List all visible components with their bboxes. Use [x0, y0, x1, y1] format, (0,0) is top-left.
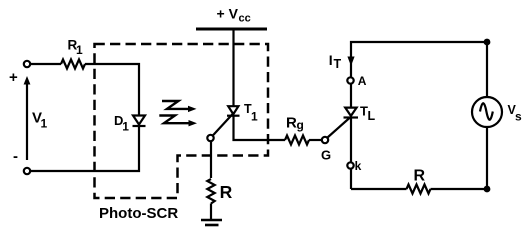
gate terminal circle G: [322, 137, 328, 143]
wire: [234, 116, 286, 140]
diode D1: [133, 116, 146, 127]
svg-text:L: L: [368, 109, 376, 123]
wire: [431, 188, 488, 190]
svg-text:R: R: [286, 115, 297, 132]
junction dot top-right: [484, 39, 491, 46]
svg-text:cc: cc: [239, 13, 251, 25]
Vcc supply rail: [196, 28, 267, 31]
label Vs: [508, 103, 523, 123]
label Rg: [286, 115, 304, 133]
label +Vcc: [217, 6, 251, 25]
resistor Rg: [285, 136, 309, 145]
light arrow 1: [162, 101, 197, 112]
wire: [210, 142, 212, 179]
junction dot bottom-right: [484, 186, 491, 193]
svg-text:1: 1: [76, 43, 83, 57]
wire: [31, 63, 61, 65]
svg-text:I: I: [329, 52, 333, 68]
wire: [486, 127, 488, 189]
terminal circle bottom-left: [24, 168, 30, 174]
gate terminal circle of T1: [207, 135, 213, 141]
dashed box Photo-SCR: [95, 44, 269, 198]
anode terminal circle A: [347, 77, 353, 83]
wire: [486, 42, 488, 97]
resistor R (load): [407, 185, 431, 194]
wire: [309, 139, 322, 141]
label IT: [329, 52, 342, 71]
svg-text:+: +: [9, 69, 18, 86]
label R1: [68, 37, 84, 57]
gate wire of TL: [328, 118, 351, 138]
svg-text:s: s: [515, 109, 522, 123]
svg-text:-: -: [13, 148, 18, 165]
svg-text:1: 1: [122, 120, 129, 134]
svg-text:g: g: [297, 118, 304, 132]
gate wire of T1: [213, 113, 234, 136]
wire: [31, 127, 139, 171]
label V1: [32, 110, 48, 131]
wire: [232, 31, 234, 107]
wire: [210, 204, 212, 221]
light arrow 2: [159, 116, 197, 127]
svg-text:+ V: + V: [217, 6, 239, 22]
terminal circle top-left: [24, 61, 30, 67]
wire: [350, 118, 352, 189]
resistor R1: [61, 60, 85, 69]
AC source Vs: [472, 97, 502, 127]
svg-text:T: T: [334, 57, 342, 71]
photo-SCR T1: [227, 106, 240, 116]
label TL: [360, 104, 376, 124]
svg-text:R: R: [414, 168, 426, 185]
label T1: [244, 102, 258, 123]
thyristor TL: [344, 108, 359, 118]
svg-text:k: k: [355, 159, 362, 173]
label D1: [114, 113, 129, 133]
resistor R (gate): [207, 179, 214, 204]
V1 arrow: [24, 76, 31, 160]
svg-text:1: 1: [41, 117, 48, 131]
svg-text:Photo-SCR: Photo-SCR: [99, 205, 178, 222]
svg-text:A: A: [358, 74, 367, 88]
svg-text:R: R: [220, 182, 233, 202]
IT current arrow: [347, 57, 354, 67]
svg-text:1: 1: [251, 109, 258, 123]
wire: [351, 188, 407, 190]
wire top right: [351, 42, 487, 108]
wire: [85, 64, 139, 115]
svg-text:G: G: [321, 148, 331, 163]
ground: [201, 220, 222, 225]
cathode terminal circle k: [347, 162, 353, 168]
